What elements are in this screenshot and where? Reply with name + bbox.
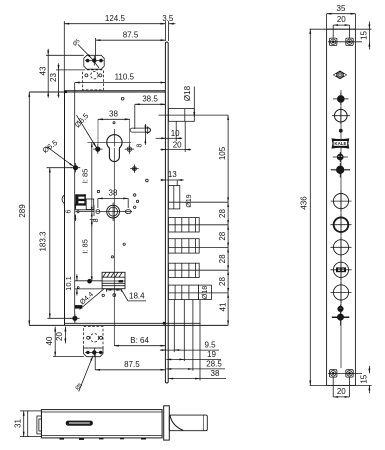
dim I85 lower (91, 212, 93, 282)
cylinder centerline down to B:64 (113, 148, 115, 346)
dim 8 hub (91, 219, 93, 226)
dim 23 (56, 69, 83, 71)
dim 38 hub (98, 197, 128, 199)
svg-text:41: 41 (218, 302, 227, 311)
dim B64 (114, 345, 165, 347)
body inner top line (41, 411, 162, 413)
small hole under block left (102, 294, 104, 296)
top plate solid (84, 55, 104, 69)
small hole linkage (77, 287, 79, 289)
cylinder crosshair (88, 141, 132, 143)
svg-text:20: 20 (173, 140, 182, 149)
top edge extension line (310, 28, 372, 30)
dim 183.3 (47, 167, 73, 169)
svg-text:110.5: 110.5 (115, 73, 135, 82)
hub side hole (96, 210, 100, 214)
chain dim 28 d (227, 270, 229, 293)
svg-text:38.5: 38.5 (142, 95, 158, 104)
small hole right (146, 179, 149, 182)
dim 10.1 (76, 274, 78, 281)
svg-text:Ø18: Ø18 (183, 85, 192, 101)
svg-text:I: 85: I: 85 (81, 169, 90, 184)
latch bolt (169, 415, 207, 431)
tick centerline D (168, 292, 228, 294)
hatched band D deadbolt (168, 285, 211, 300)
dashed side holes (85, 74, 88, 77)
left cap detail (37, 416, 42, 434)
filled hole crosshair (331, 163, 350, 178)
chain dim 28 b (227, 225, 229, 248)
tick centerline B (168, 247, 228, 249)
top plate crosshair (85, 56, 104, 66)
screw hole top-right (346, 38, 353, 45)
svg-text:20: 20 (337, 387, 346, 396)
bottom edge extension line (310, 384, 372, 386)
svg-text:20: 20 (55, 332, 64, 341)
dimension 20 (184, 121, 186, 152)
hole M5 right of cylinder (125, 144, 134, 153)
bolt linkage lines (75, 280, 102, 282)
leader dia6.5 upper (77, 115, 97, 147)
svg-text:8: 8 (93, 218, 100, 222)
leader dia6.5 lower (47, 147, 74, 167)
leader to top plate hole (78, 45, 92, 59)
pivot dot (88, 279, 92, 283)
corner mark top-left (64, 90, 67, 93)
dim 6 (74, 203, 76, 210)
svg-text:38: 38 (109, 110, 118, 119)
dim 289 (28, 92, 30, 325)
svg-text:31: 31 (14, 419, 23, 428)
extension lines (20, 410, 29, 412)
svg-text:183.3: 183.3 (39, 231, 48, 252)
small hole under block (113, 294, 116, 297)
svg-text:28: 28 (218, 254, 227, 263)
dim 43 (46, 54, 84, 56)
dimension 35 (327, 13, 356, 15)
dim 38.5 (134, 104, 136, 129)
top plate dashed part (83, 70, 104, 90)
svg-text:I: 85: I: 85 (81, 239, 90, 254)
chain dim 105 (227, 115, 229, 202)
chain dim 28 a (227, 202, 229, 225)
dim 124.5 (63, 21, 65, 91)
svg-text:18.4: 18.4 (129, 291, 145, 300)
case bottom edge (65, 322, 201, 324)
feet nubs (60, 438, 65, 440)
body (41, 410, 162, 438)
leader to bottom plate hole (79, 384, 82, 392)
KALE logo (332, 138, 350, 148)
hole circle 3 (331, 237, 352, 258)
dimension 19 (166, 358, 184, 360)
svg-text:Ø18: Ø18 (202, 286, 209, 299)
screw hole bottom-left (330, 370, 337, 377)
hole circle 2 bold (331, 214, 352, 235)
dimension 20 bottom (332, 378, 334, 397)
small crosshair hole mid (130, 165, 138, 173)
dimension 15 bottom (368, 366, 370, 374)
tick centerline A (168, 224, 228, 226)
dimension 20 top (333, 24, 349, 26)
faceplate edge-on (165, 42, 168, 383)
dimension 13 (176, 181, 178, 186)
diamond logo (333, 71, 347, 80)
hole circle 1 (331, 191, 352, 212)
svg-text:105: 105 (218, 146, 227, 160)
slot end circle (145, 128, 150, 133)
svg-text:10: 10 (171, 129, 180, 138)
svg-text:13: 13 (168, 170, 177, 179)
svg-text:KALE: KALE (334, 141, 346, 146)
inner vertical line (74, 83, 76, 323)
svg-text:23: 23 (49, 73, 58, 82)
svg-text:124.5: 124.5 (105, 14, 126, 23)
dim 87.5 bottom (94, 353, 96, 370)
latch centerline (159, 114, 229, 116)
faceplate plate outline (327, 29, 356, 385)
svg-text:15: 15 (360, 374, 369, 383)
latch hole band (168, 109, 194, 122)
dim 3.5 (164, 21, 166, 41)
dim 31 (23, 411, 25, 437)
leader dia18 latch (193, 87, 195, 118)
screw holes centerline (328, 41, 362, 43)
hole M5 left of cylinder (93, 144, 102, 153)
screw hole bottom-right (346, 370, 353, 377)
dim 87.5 top (95, 38, 97, 59)
dimension 28.5 (166, 368, 193, 370)
extension verticals to bottom dims (173, 300, 175, 353)
bottom plate dashed circle (90, 334, 98, 342)
svg-text:87.5: 87.5 (123, 30, 139, 39)
screw hole top-left (330, 38, 337, 45)
left screw hole upper (71, 163, 80, 172)
chain dim 28 c (227, 248, 229, 271)
body inner bottom line (41, 434, 162, 436)
svg-text:20: 20 (337, 15, 346, 24)
bottom plate dashed part (84, 327, 103, 348)
corner mark bottom-right (163, 322, 166, 325)
small filled hole with crosshair (333, 93, 349, 105)
extension lines above plate (326, 14, 328, 30)
svg-text:289: 289 (18, 204, 27, 218)
faceplate centerline (340, 90, 342, 368)
svg-text:9.5: 9.5 (204, 341, 216, 350)
small hole below 38 dim (113, 122, 115, 124)
dim 20 bottom-left (64, 327, 66, 344)
dimension 10 (175, 121, 177, 141)
svg-text:40: 40 (45, 336, 54, 345)
hatched band A (168, 218, 199, 232)
case top edge (65, 90, 166, 92)
tiny dot (339, 129, 342, 132)
euro cylinder hole (107, 135, 122, 162)
small filled hole (333, 152, 348, 162)
svg-text:28: 28 (218, 231, 227, 240)
svg-text:15: 15 (360, 31, 369, 40)
leader dia4.4 (80, 289, 105, 310)
bottom plate crosshair (85, 348, 104, 357)
follower hub (97, 203, 133, 222)
svg-text:43: 43 (39, 66, 48, 75)
left edge bump (62, 195, 64, 204)
dimension 9.5 (160, 349, 167, 351)
hole circle 4 with insert (331, 259, 352, 280)
hole circle 5 (331, 282, 352, 303)
svg-text:28: 28 (218, 277, 227, 286)
lever part (75, 199, 94, 216)
left screw hole lower (70, 314, 79, 323)
small hatched part (75, 305, 82, 309)
svg-text:10.1: 10.1 (64, 276, 73, 291)
svg-text:3.5: 3.5 (162, 14, 174, 23)
keyway slot (66, 421, 93, 426)
deadbolt block (102, 272, 125, 288)
bottom plate dashed side holes (87, 336, 90, 339)
svg-text:87.5: 87.5 (124, 360, 140, 369)
tick centerline C (168, 269, 228, 271)
follower centerline (168, 201, 228, 203)
small filled hole lower (338, 306, 343, 311)
dim 40 (53, 356, 84, 358)
left cap (28, 411, 42, 437)
svg-text:436: 436 (300, 196, 309, 210)
case left edge (64, 91, 66, 326)
dimension 38 bottom (168, 378, 200, 380)
svg-text:38: 38 (109, 189, 118, 198)
svg-text:B: 64: B: 64 (130, 336, 149, 345)
faceplate flange (164, 406, 170, 440)
bottom holes centerline (328, 372, 362, 374)
dimension 436 (309, 29, 311, 385)
dim 18.4 (105, 289, 107, 292)
dim 110.5 (75, 82, 166, 84)
small hole top (121, 97, 124, 100)
hub trio holes (134, 194, 136, 196)
follower hole band dia19 (168, 186, 179, 209)
dim 38 cylinder (98, 118, 130, 120)
slot pill (130, 128, 150, 132)
dashed circle (91, 72, 98, 79)
svg-text:Ø19: Ø19 (186, 194, 193, 207)
oval right of hub (125, 210, 131, 214)
bolt knob with bold line (332, 305, 350, 326)
svg-text:6: 6 (66, 209, 73, 213)
svg-text:38: 38 (211, 369, 220, 378)
dim 8 slot (144, 124, 146, 130)
svg-text:28.5: 28.5 (206, 359, 222, 368)
svg-text:35: 35 (337, 4, 346, 13)
spring retainer part (75, 194, 86, 205)
dim I85 upper (91, 142, 93, 211)
hatched band B (168, 239, 199, 253)
bottom plate solid (84, 348, 103, 357)
small hole mid-low (111, 256, 113, 258)
chain dim 41 (227, 293, 229, 326)
hatched band C (168, 263, 199, 277)
svg-text:8: 8 (137, 143, 144, 147)
open hole crosshair (332, 107, 350, 124)
svg-text:28: 28 (218, 209, 227, 218)
small hole left of hub (97, 190, 99, 192)
svg-text:19: 19 (207, 350, 216, 359)
dimension 15 top (368, 22, 370, 30)
